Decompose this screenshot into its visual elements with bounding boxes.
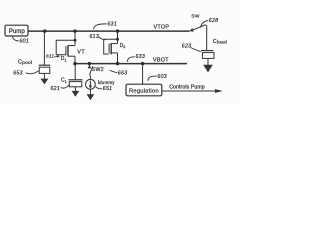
node VBOT-D2 junction bbox=[116, 62, 119, 65]
leader for 663 bbox=[110, 70, 118, 73]
svg-text:621: 621 bbox=[51, 86, 61, 92]
node VBOT-SW2 junction bbox=[88, 62, 91, 65]
regulation box 603 bbox=[126, 84, 162, 96]
ground below Cpool bbox=[40, 73, 48, 84]
capacitor Cload bbox=[201, 51, 214, 59]
svg-text:Controls Pump: Controls Pump bbox=[169, 84, 205, 90]
arrow for 611 bbox=[54, 55, 60, 57]
svg-text:601: 601 bbox=[20, 38, 30, 44]
svg-text:633: 633 bbox=[136, 54, 146, 60]
node VBOT-Regulation junction bbox=[141, 62, 144, 65]
wire VBOT down to C1 bbox=[74, 64, 76, 80]
ground below Idummy bbox=[87, 94, 95, 100]
capacitor Cpool bbox=[39, 65, 51, 73]
leader for 621 bbox=[61, 85, 69, 88]
svg-text:613: 613 bbox=[90, 34, 100, 40]
svg-text:663: 663 bbox=[118, 71, 128, 77]
svg-text:653: 653 bbox=[13, 70, 23, 76]
ground below C1 bbox=[72, 87, 80, 97]
leader for 633 bbox=[127, 57, 135, 62]
current source Idummy bbox=[86, 79, 96, 89]
wire D1 source to VBOT bbox=[74, 56, 76, 63]
svg-text:611: 611 bbox=[46, 54, 54, 60]
node VTOP-D2 junction bbox=[116, 29, 119, 32]
leader for 601 bbox=[13, 37, 19, 41]
pump box 601 bbox=[5, 25, 28, 36]
svg-text:Pump: Pump bbox=[9, 28, 26, 35]
svg-text:VT: VT bbox=[77, 49, 85, 55]
svg-text:631: 631 bbox=[108, 22, 118, 28]
svg-text:603: 603 bbox=[157, 74, 167, 80]
svg-text:SW2: SW2 bbox=[92, 67, 104, 73]
node VTOP-D1 junction bbox=[73, 29, 76, 32]
leader for 628 bbox=[201, 21, 209, 28]
switch SW bbox=[189, 25, 206, 51]
node VTOP-Cpool junction bbox=[43, 29, 46, 32]
controls pump arrow bbox=[162, 89, 223, 93]
svg-text:628: 628 bbox=[209, 18, 219, 24]
switch SW2 bbox=[88, 64, 93, 79]
leader for 653 bbox=[26, 71, 39, 74]
svg-text:Cpool: Cpool bbox=[18, 59, 32, 66]
svg-text:Cload: Cload bbox=[213, 39, 227, 46]
svg-text:VTOP: VTOP bbox=[154, 25, 170, 31]
capacitor C1 bbox=[69, 80, 83, 87]
svg-text:651: 651 bbox=[103, 86, 113, 92]
wire VBOT rail bbox=[75, 63, 187, 65]
svg-text:VBOT: VBOT bbox=[153, 58, 169, 64]
wire D2 source to VBOT bbox=[117, 53, 119, 64]
leader for 631 bbox=[93, 24, 107, 29]
leader for 651 bbox=[95, 87, 102, 89]
ground below Cload bbox=[203, 58, 213, 72]
svg-text:623: 623 bbox=[182, 43, 192, 49]
leader for 603 bbox=[148, 76, 157, 81]
leader for 613 bbox=[99, 37, 106, 40]
wire Idummy to ground bbox=[89, 89, 91, 95]
node D2 gate-drain junction bbox=[116, 38, 119, 41]
leader for 623 bbox=[191, 48, 201, 52]
node D1 gate-drain junction bbox=[74, 39, 77, 42]
wire from VTOP down to Cpool bbox=[43, 31, 45, 65]
wire VBOT down to Regulation bbox=[142, 64, 144, 85]
svg-text:Regulation: Regulation bbox=[129, 88, 159, 94]
svg-text:SW: SW bbox=[191, 14, 199, 20]
transistor D1 bbox=[56, 31, 75, 56]
wire VTOP rail bbox=[28, 30, 190, 32]
transistor D2 bbox=[104, 31, 118, 54]
node VBOT-C1 junction bbox=[73, 62, 76, 65]
